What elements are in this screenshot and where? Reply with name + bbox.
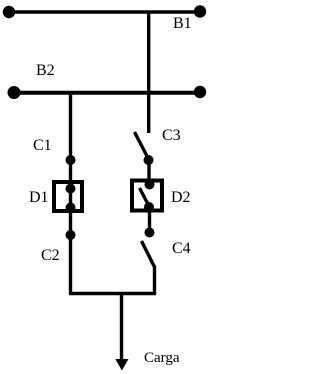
svg-text:B1: B1 — [173, 15, 192, 32]
svg-text:C3: C3 — [162, 127, 181, 144]
svg-text:D2: D2 — [171, 189, 191, 206]
svg-text:C4: C4 — [172, 240, 191, 257]
svg-text:C1: C1 — [33, 137, 52, 154]
svg-text:B2: B2 — [36, 62, 55, 79]
svg-text:C2: C2 — [41, 247, 60, 264]
svg-text:D1: D1 — [29, 189, 49, 206]
svg-text:Carga: Carga — [144, 350, 180, 366]
